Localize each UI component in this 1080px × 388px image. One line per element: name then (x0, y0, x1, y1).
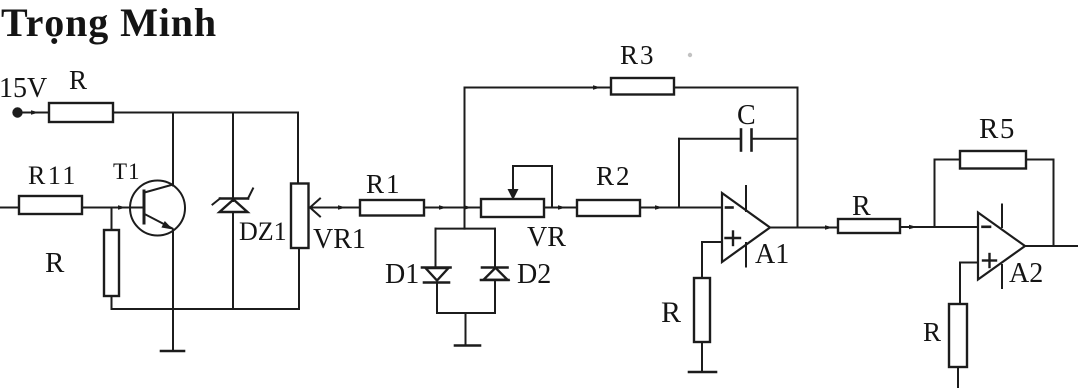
svg-text:R: R (923, 317, 941, 347)
svg-text:R1: R1 (366, 169, 402, 199)
svg-text:Trọng Minh: Trọng Minh (1, 0, 217, 45)
svg-text:R: R (852, 191, 871, 222)
svg-text:D1: D1 (385, 259, 419, 290)
svg-text:T1: T1 (113, 159, 141, 184)
svg-text:R11: R11 (28, 161, 78, 190)
svg-text:R5: R5 (979, 113, 1016, 145)
svg-text:15V: 15V (0, 73, 47, 104)
svg-text:R: R (69, 65, 87, 95)
svg-text:VR1: VR1 (313, 224, 366, 255)
svg-text:A1: A1 (755, 239, 789, 270)
svg-text:VR: VR (527, 222, 566, 253)
svg-text:C: C (737, 100, 756, 131)
svg-text:A2: A2 (1009, 258, 1043, 289)
svg-text:R: R (661, 296, 681, 329)
svg-text:R: R (45, 247, 65, 279)
svg-text:DZ1: DZ1 (239, 217, 287, 246)
svg-text:R2: R2 (596, 161, 632, 191)
svg-text:R3: R3 (620, 40, 656, 70)
svg-text:D2: D2 (517, 259, 551, 290)
